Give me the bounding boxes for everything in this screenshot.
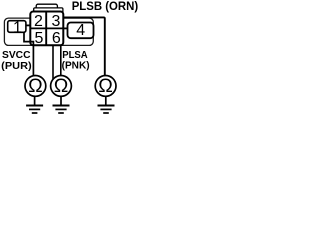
- grid vertical divider: [45, 12, 47, 46]
- svg-text:4: 4: [76, 22, 85, 39]
- wire PLSB (top right, down to ohmmeter 3): [64, 17, 105, 75]
- cavity 1 box: [8, 21, 26, 33]
- svg-text:Ω: Ω: [98, 75, 113, 97]
- latch tab lower step: [34, 8, 63, 14]
- svg-text:5: 5: [35, 30, 44, 47]
- svg-text:PLSB (ORN): PLSB (ORN): [72, 1, 138, 13]
- wire PLSA to ohmmeter 2: [60, 46, 62, 76]
- latch tab upper step: [36, 4, 57, 11]
- svg-text:Ω: Ω: [54, 75, 69, 97]
- ground symbol 3: [98, 96, 115, 113]
- bridge grid to cavity 4: [64, 27, 67, 29]
- svg-text:Ω: Ω: [28, 75, 43, 97]
- svg-text:2: 2: [34, 13, 43, 30]
- svg-text:(PUR): (PUR): [1, 61, 31, 72]
- cavity 4 box: [68, 23, 94, 39]
- svg-text:1: 1: [13, 19, 22, 36]
- bridge cavity1 to grid: [26, 24, 29, 26]
- ohmmeter circle 3: [95, 76, 116, 97]
- svg-text:PLSA: PLSA: [62, 50, 87, 61]
- svg-text:(PNK): (PNK): [62, 61, 90, 72]
- svg-text:3: 3: [52, 13, 61, 30]
- ohmmeter circle 2: [51, 76, 72, 97]
- svg-text:6: 6: [52, 30, 61, 47]
- ground symbol 1: [26, 96, 43, 113]
- jog under cavity 1 + wire SVCC: [24, 32, 33, 76]
- pin grid block: [30, 12, 63, 46]
- ground symbol 2: [53, 96, 70, 113]
- grid horizontal divider: [30, 27, 64, 29]
- connector shell outer rect: [4, 18, 93, 45]
- svg-text:SVCC: SVCC: [2, 50, 31, 61]
- ohmmeter circle 1: [25, 76, 46, 97]
- wire to ohmmeter 2 (left lead): [52, 46, 54, 79]
